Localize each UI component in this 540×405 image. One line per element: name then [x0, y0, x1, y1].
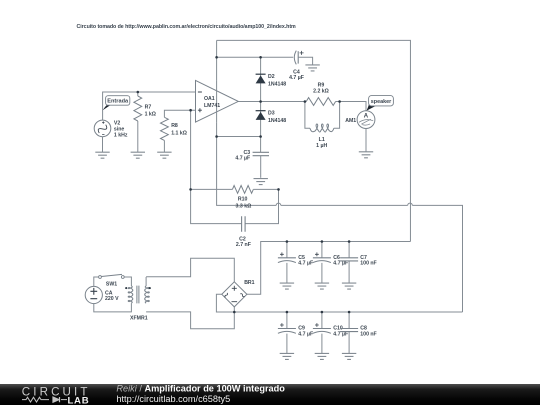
ground V2	[102, 137, 104, 152]
node top rail left	[215, 56, 218, 59]
ground C5	[280, 283, 294, 289]
svg-text:4.7 µF: 4.7 µF	[289, 75, 304, 81]
wire R8 to plus input	[164, 110, 195, 117]
inductor L1	[310, 124, 334, 132]
phase dot secondary	[149, 287, 151, 289]
resistor R9	[306, 98, 335, 106]
capacitor C5	[278, 257, 296, 259]
switch SW1	[99, 276, 102, 279]
svg-text:AM1: AM1	[345, 118, 356, 124]
capacitor C9	[278, 328, 296, 330]
node L1 right	[338, 100, 341, 103]
wire feedback lower run with hops	[217, 122, 463, 312]
ground R8	[157, 152, 171, 158]
source V2	[94, 120, 111, 137]
node C10 top	[321, 311, 324, 314]
ground AM1	[365, 129, 367, 152]
ground C9	[280, 353, 294, 359]
svg-text:D3: D3	[268, 111, 275, 117]
wire R10 row	[191, 188, 279, 190]
svg-text:4.7 µF: 4.7 µF	[235, 156, 250, 162]
node D2 output	[259, 100, 262, 103]
wire output to ammeter	[336, 102, 366, 111]
node C3 top	[259, 135, 262, 138]
svg-text:Entrada: Entrada	[107, 99, 129, 105]
wire secondary top to bridge	[146, 258, 234, 286]
diode D3	[256, 110, 266, 112]
wire diode chain to C3 node	[260, 57, 262, 152]
wire feedback through op-amp	[216, 80, 218, 122]
wire input top	[103, 92, 196, 120]
logo resistor-diode glyph	[22, 397, 49, 402]
svg-text:V2: V2	[114, 120, 120, 126]
svg-text:1N4148: 1N4148	[268, 82, 286, 88]
wire C6 stub	[321, 242, 323, 284]
svg-text:OA1: OA1	[204, 96, 215, 102]
svg-text:4.7 µF: 4.7 µF	[333, 261, 348, 267]
op-amp OA1	[196, 80, 239, 122]
capacitor C3	[253, 152, 269, 155]
wire C7 stub	[348, 242, 350, 284]
wire D2 top rail	[217, 56, 294, 58]
node C9 top	[286, 311, 289, 314]
wire negative supply bus	[234, 307, 462, 312]
svg-text:XFMR1: XFMR1	[130, 316, 148, 322]
ground C8	[342, 353, 356, 359]
bridge BR1	[222, 282, 247, 307]
wire feedback left drop	[216, 40, 218, 80]
capacitor C10	[313, 328, 331, 330]
node R10 left	[189, 188, 192, 191]
svg-text:1 kHz: 1 kHz	[114, 133, 128, 139]
capacitor C4	[294, 51, 296, 65]
flag Entrada	[103, 105, 111, 110]
node C8 top	[348, 311, 351, 314]
wire hop at C2 riser	[276, 203, 281, 205]
svg-text:1.1 kΩ: 1.1 kΩ	[171, 130, 187, 136]
transformer XFMR1	[128, 286, 133, 303]
svg-text:Circuito tomado de http://www.: Circuito tomado de http://www.pablin.com…	[77, 24, 297, 30]
svg-text:2.7 nF: 2.7 nF	[236, 242, 251, 248]
svg-text:4.7 µF: 4.7 µF	[333, 331, 348, 337]
ground C7	[342, 283, 356, 289]
svg-text:1 kΩ: 1 kΩ	[145, 112, 156, 118]
svg-text:1N4148: 1N4148	[268, 118, 286, 124]
wire C3 node to feedback line	[217, 136, 261, 138]
wire BR1 left corner loop	[216, 294, 234, 312]
capacitor C7	[340, 258, 358, 261]
svg-text:R8: R8	[171, 123, 178, 129]
capacitor C6	[313, 257, 331, 259]
phase dot primary	[125, 287, 127, 289]
node D2 top	[259, 56, 262, 59]
node BR1 minus	[233, 311, 236, 314]
svg-text:220 V: 220 V	[105, 296, 119, 302]
wire C10 stub	[321, 312, 323, 353]
wire V1 to SW1	[94, 277, 99, 286]
wire node A vertical (plus node to R10/C2)	[191, 110, 242, 223]
svg-text:1 µH: 1 µH	[316, 143, 327, 149]
node C6 top	[321, 240, 324, 243]
node L1 left	[304, 100, 307, 103]
svg-text:BR1: BR1	[244, 280, 254, 286]
node plus input	[189, 109, 192, 112]
diode D2	[256, 73, 266, 75]
ground C3	[254, 179, 268, 185]
wire C2 right riser	[245, 189, 278, 223]
node C7 top	[348, 240, 351, 243]
wire hop at right rail	[408, 203, 413, 205]
flag speaker	[367, 103, 377, 111]
wire C5 stub	[286, 242, 288, 284]
capacitor C8	[340, 329, 358, 332]
ground C10	[315, 353, 329, 359]
node R10 right	[277, 188, 280, 191]
svg-text:http://circuitlab.com/c658ty5: http://circuitlab.com/c658ty5	[116, 394, 230, 404]
wire positive supply bus	[247, 242, 411, 295]
svg-text:100 nF: 100 nF	[360, 261, 376, 267]
wire primary bottom	[94, 303, 132, 312]
svg-text:LAB: LAB	[68, 395, 90, 405]
svg-text:speaker: speaker	[371, 99, 392, 105]
capacitor C2	[242, 216, 246, 232]
wire secondary bottom to bridge	[146, 312, 234, 329]
ground C4	[305, 65, 319, 71]
source V1 CA	[85, 286, 102, 303]
svg-text:SW1: SW1	[106, 282, 117, 288]
wire SW1 to transformer	[124, 277, 131, 286]
svg-text:D2: D2	[268, 74, 275, 80]
ammeter AM1	[357, 111, 375, 129]
resistor R10	[232, 186, 253, 194]
ground R7	[131, 152, 145, 158]
node R7 top	[137, 91, 140, 94]
wire feedback top rail	[217, 40, 411, 241]
svg-text:sine: sine	[114, 127, 124, 133]
ground C6	[315, 283, 329, 289]
svg-text:R10: R10	[238, 196, 248, 202]
svg-text:100 nF: 100 nF	[360, 331, 376, 337]
svg-text:3.3 kΩ: 3.3 kΩ	[236, 203, 252, 209]
node C5 top	[286, 240, 289, 243]
svg-text:Reiki / Amplificador de 100W i: Reiki / Amplificador de 100W integrado	[116, 384, 285, 394]
resistor R7	[137, 92, 139, 96]
svg-text:R7: R7	[145, 105, 152, 111]
wire L1 branch	[305, 102, 340, 129]
svg-text:4.7 µF: 4.7 µF	[298, 261, 313, 267]
svg-text:A: A	[364, 114, 369, 120]
svg-text:LM741: LM741	[204, 103, 220, 109]
wire C9 stub	[286, 312, 288, 353]
wire op-amp output	[238, 101, 306, 103]
svg-text:4.7 µF: 4.7 µF	[298, 331, 313, 337]
svg-text:2.2 kΩ: 2.2 kΩ	[313, 89, 329, 95]
wire C8 stub	[348, 312, 350, 353]
resistor R8	[161, 117, 169, 140]
node feedback mid	[215, 135, 218, 138]
